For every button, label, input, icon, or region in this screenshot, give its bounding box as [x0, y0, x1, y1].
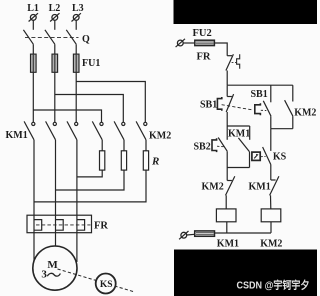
top watermark redaction box — [174, 0, 318, 24]
contactor KM1 selfhold contact — [238, 138, 249, 168]
wire FU1-2 to KM1 contact 2 — [54, 72, 56, 122]
wire KM1 contact 3 to FR — [76, 140, 78, 233]
FR linkage dashed — [36, 224, 91, 226]
button SB2 NO start — [212, 138, 227, 153]
bottom watermark redaction box — [174, 250, 317, 296]
FR NC contact — [226, 54, 240, 70]
svg-text:KS: KS — [100, 280, 113, 290]
svg-text:KM1: KM1 — [6, 130, 28, 141]
wire KM1 coil to rail — [226, 222, 228, 233]
speed switch coupling dashed — [58, 269, 135, 292]
switch Q pole 1 blade — [23, 30, 33, 44]
svg-text:Q: Q — [82, 34, 90, 45]
switch Q pole 3 blade — [66, 30, 76, 44]
coil KM1 — [216, 209, 236, 222]
wire KM1 NC to KM2 coil — [270, 195, 272, 209]
wire node D bus — [271, 128, 293, 130]
wire KM2 contact 6 to resistor — [145, 140, 147, 151]
button SB1 NO — [255, 85, 271, 116]
wire resistor b to phase2 line — [56, 170, 125, 190]
svg-text:KM2: KM2 — [202, 182, 224, 193]
contactor KM1 NC interlock — [270, 176, 279, 195]
svg-text:SB2: SB2 — [194, 141, 211, 152]
wire switch to FU1-2 — [54, 44, 56, 54]
speed switch KS circle — [96, 274, 116, 294]
wire L1 to switch — [32, 20, 34, 30]
terminal L1 — [29, 13, 38, 21]
contactor KM1 main contact 3 — [67, 121, 78, 139]
resistor R phase c — [143, 151, 148, 170]
FR heater element 3 — [77, 220, 85, 231]
SB1 linkage dashed — [222, 105, 254, 110]
svg-text:FU1: FU1 — [82, 58, 100, 69]
resistor R phase a — [100, 151, 105, 170]
wire L3 to switch — [75, 20, 77, 30]
switch Q linkage dashed — [25, 37, 79, 39]
wire FR to motor 3 — [76, 233, 78, 262]
svg-text:KS: KS — [273, 151, 287, 162]
speed switch KS contact — [252, 129, 271, 165]
wire branch phase3 to KM2 contact 6 — [76, 82, 145, 123]
fuse FU1-2 — [52, 54, 58, 72]
svg-text:KM1: KM1 — [228, 128, 250, 139]
svg-text:KM1: KM1 — [217, 238, 239, 249]
wire L2 to switch — [54, 20, 56, 30]
fuse FU1-3 — [73, 54, 79, 72]
wire FU1-1 to KM1 contact 1 — [32, 72, 34, 122]
wire SB1 NO down to node D — [270, 116, 272, 129]
FR heater element 2 — [56, 220, 64, 231]
svg-text:L1: L1 — [27, 3, 39, 14]
wire SB2 down — [226, 151, 228, 167]
wire terminal to FU2 — [183, 42, 195, 44]
svg-text:L2: L2 — [49, 3, 61, 14]
fuse FU2 — [195, 40, 215, 45]
FR heater element 1 — [34, 220, 42, 231]
wire node C bus — [227, 167, 249, 169]
wire FU1-3 to KM1 contact 3 — [75, 72, 77, 122]
switch Q pole 2 blade — [45, 30, 55, 44]
contactor KM1 main contact 1 — [24, 121, 35, 139]
svg-text:FU2: FU2 — [193, 28, 212, 39]
svg-text:KM2: KM2 — [294, 107, 316, 118]
resistor R phase b — [121, 151, 126, 170]
svg-text:3: 3 — [41, 269, 47, 281]
svg-text:FR: FR — [94, 221, 108, 232]
svg-text:SB1: SB1 — [200, 100, 217, 111]
fuse FU1-1 — [31, 54, 37, 72]
button SB1 NC stop — [217, 85, 233, 112]
svg-text:L3: L3 — [72, 3, 84, 14]
motor M circle — [33, 246, 77, 290]
wire KM2 contact 4 to resistor — [101, 140, 103, 151]
node B junction bar — [227, 126, 250, 140]
svg-text:R: R — [151, 156, 159, 168]
wire FU2 to main rail — [214, 43, 227, 56]
wire FR contact to node A — [226, 71, 228, 86]
wire terminal to bottom fuse — [187, 233, 195, 236]
wire branch phase2 to KM2 contact 5 — [55, 95, 124, 123]
wire node A bus — [227, 84, 293, 86]
terminal L2 — [50, 13, 59, 21]
contactor KM2 main contact 4 — [92, 121, 103, 139]
wire switch to FU1-3 — [75, 44, 77, 54]
wire KM2 NC to KM1 coil — [225, 195, 227, 209]
wire KM2 contact 5 to resistor — [123, 140, 125, 151]
wire resistor a to phase3 line — [77, 170, 102, 177]
contactor KM2 NC interlock — [226, 168, 235, 196]
wire FR to motor 2 — [55, 233, 57, 248]
wire bottom rail — [215, 232, 272, 234]
wire KM2 coil to rail — [270, 222, 272, 233]
wire branch phase1 to KM2 contact 4 — [33, 110, 101, 122]
svg-text:SB1: SB1 — [251, 89, 268, 100]
wire resistor c to phase1 line — [34, 170, 146, 202]
wire switch to FU1-1 — [32, 44, 34, 54]
svg-text:KM1: KM1 — [249, 182, 271, 193]
control terminal bottom — [179, 231, 188, 239]
wire KM1 contact 1 to FR — [33, 140, 35, 233]
svg-text:M: M — [47, 259, 58, 271]
wire FR to motor 1 — [33, 233, 35, 262]
contactor KM2 main contact 5 — [114, 121, 125, 139]
wire KM1 contact 2 to FR — [55, 140, 57, 233]
coil KM2 — [261, 209, 281, 222]
label tilde — [47, 273, 60, 276]
thermal relay FR box — [27, 215, 92, 233]
contactor KM2 selfhold contact — [285, 85, 293, 116]
wire KM2 selfhold down — [292, 116, 294, 129]
wire KS to KM1 NC — [270, 165, 272, 180]
svg-text:KM2: KM2 — [260, 238, 282, 249]
fuse FU2 bottom — [195, 231, 215, 236]
svg-text:CSDN @宇钶宇夕: CSDN @宇钶宇夕 — [237, 278, 310, 291]
contactor KM1 main contact 2 — [46, 121, 57, 139]
svg-text:FR: FR — [197, 52, 211, 63]
control terminal top — [176, 39, 185, 47]
svg-text:KM2: KM2 — [149, 130, 171, 141]
wire SB1 NC to KM1 box — [226, 112, 228, 140]
contactor KM2 main contact 6 — [136, 121, 147, 139]
terminal L3 — [72, 13, 81, 21]
